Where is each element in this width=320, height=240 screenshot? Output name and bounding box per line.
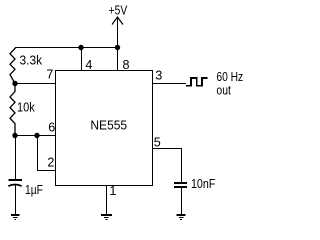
wire pin 2 — [38, 136, 57, 171]
svg-text:3.3k: 3.3k — [20, 53, 43, 68]
svg-text:8: 8 — [123, 58, 130, 72]
node junction dot pin4 rail — [78, 45, 83, 50]
wire pin 6 — [15, 135, 56, 137]
wire pin 1 — [106, 185, 108, 216]
node junction dot pin7 — [12, 81, 17, 86]
wire pin 8 — [117, 48, 119, 71]
capacitor C2 10nF plates — [174, 183, 187, 187]
wire C1 top lead — [15, 136, 17, 180]
power +5V arrow — [117, 17, 119, 48]
wire pin 4 — [81, 48, 83, 71]
wire pin 7 — [15, 83, 56, 85]
resistor R1 3.3k — [10, 48, 16, 84]
wire pin 3 — [153, 83, 187, 85]
ground left — [11, 215, 20, 220]
svg-text:NE555: NE555 — [90, 118, 127, 133]
node junction dot pin6 left — [12, 133, 17, 138]
IC U1 NE555 body — [56, 71, 153, 186]
svg-text:5: 5 — [154, 136, 161, 150]
resistor R2 10k — [10, 84, 15, 136]
svg-text:10nF: 10nF — [191, 176, 215, 191]
node junction dot pin8 rail — [115, 45, 120, 50]
capacitor C1 1uF plates — [8, 180, 22, 186]
svg-text:1: 1 — [109, 184, 116, 198]
ground right — [177, 215, 186, 220]
ground middle — [101, 215, 112, 220]
node junction dot pin6 mid — [34, 133, 39, 138]
svg-text:out: out — [216, 82, 231, 97]
svg-text:+5V: +5V — [109, 2, 128, 17]
squarewave output symbol — [186, 78, 208, 86]
svg-text:3: 3 — [155, 69, 162, 83]
svg-text:2: 2 — [47, 155, 54, 169]
svg-text:10k: 10k — [17, 100, 35, 115]
svg-text:7: 7 — [46, 67, 53, 81]
svg-text:1µF: 1µF — [25, 182, 43, 197]
svg-text:6: 6 — [48, 121, 55, 135]
wire C2 bottom lead — [181, 188, 183, 216]
wire top rail — [15, 47, 117, 49]
wire C1 bottom lead — [15, 185, 17, 216]
svg-text:4: 4 — [85, 58, 92, 72]
wire pin 5 — [153, 149, 182, 183]
